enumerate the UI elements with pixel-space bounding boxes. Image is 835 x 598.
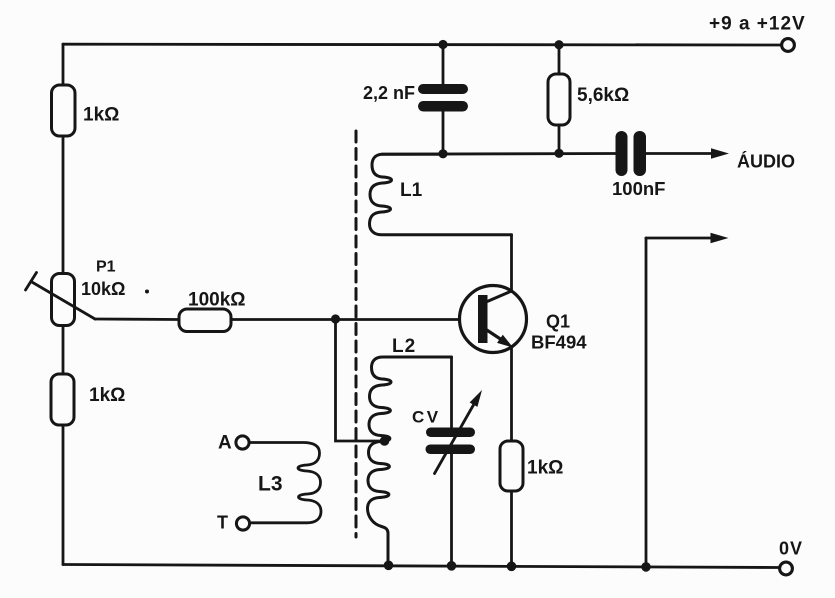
svg-text:5,6kΩ: 5,6kΩ xyxy=(577,85,629,106)
svg-text:10kΩ: 10kΩ xyxy=(81,279,125,299)
resistor R4 5,6kΩ xyxy=(548,74,570,125)
capacitor C2 100nF xyxy=(616,131,647,176)
stray ink mark xyxy=(145,290,149,294)
dashed shield line xyxy=(355,131,358,537)
node bottom rail / L2 xyxy=(384,561,394,571)
wire wiper to R3 xyxy=(95,318,179,321)
svg-text:A: A xyxy=(218,433,232,454)
capacitor CV variable xyxy=(426,390,483,474)
resistor R3 100kΩ xyxy=(179,309,231,332)
svg-text:+9 a +12V: +9 a +12V xyxy=(709,14,806,35)
wire audio line (L1 top to 100nF) xyxy=(382,152,616,155)
wire R2 to bottom rail xyxy=(62,425,65,565)
wire P1 to R2 xyxy=(62,326,65,375)
wire bottom ground rail xyxy=(63,565,779,568)
wire R5 to bottom rail xyxy=(510,491,513,566)
svg-text:Q1: Q1 xyxy=(546,312,570,332)
potentiometer P1 10kΩ xyxy=(26,273,96,326)
wire L2 top to CV xyxy=(450,357,453,428)
wire Q1 emitter to R5 xyxy=(510,347,513,441)
node bottom rail / second output xyxy=(641,562,651,572)
terminal 0V xyxy=(780,562,793,575)
node top rail / 2,2nF xyxy=(438,40,447,49)
inductor L3 xyxy=(250,443,322,523)
wire second output to bottom rail xyxy=(645,238,648,567)
svg-text:1kΩ: 1kΩ xyxy=(83,105,119,126)
wire top rail to R4 xyxy=(558,45,561,75)
wire 100nF to audio arrow xyxy=(646,152,712,155)
svg-text:L2: L2 xyxy=(392,336,416,357)
svg-text:P1: P1 xyxy=(96,259,116,276)
svg-text:CV: CV xyxy=(412,408,441,427)
wire L1 bottom to Q1 collector xyxy=(510,235,513,291)
svg-text:0V: 0V xyxy=(779,539,803,559)
svg-text:L1: L1 xyxy=(400,180,423,201)
node bottom rail / CV xyxy=(447,561,457,571)
node base junction xyxy=(331,314,340,323)
resistor R5 1kΩ emitter xyxy=(500,441,523,491)
resistor R2 1kΩ lower-left xyxy=(51,374,74,425)
inductor L1 xyxy=(370,154,512,235)
wire CV to bottom rail xyxy=(450,454,453,566)
terminal T xyxy=(236,517,249,530)
wire top rail to capacitor 2,2nF xyxy=(442,45,445,85)
wire R3 to Q1 base xyxy=(231,318,478,321)
node bottom rail / R5 xyxy=(507,562,517,572)
inductor L2 xyxy=(368,357,452,565)
transistor Q1 BF494 xyxy=(460,286,527,353)
svg-text:1kΩ: 1kΩ xyxy=(527,458,563,479)
node audio line / 2,2nF xyxy=(438,149,447,158)
wire 2,2nF to audio line xyxy=(442,112,445,154)
svg-text:L3: L3 xyxy=(258,473,283,496)
wire base junction to L2 tap xyxy=(336,319,385,441)
svg-text:100nF: 100nF xyxy=(612,178,665,199)
svg-text:100kΩ: 100kΩ xyxy=(188,290,246,311)
resistor R1 1kΩ top-left xyxy=(52,85,76,136)
svg-text:ÁUDIO: ÁUDIO xyxy=(737,151,795,172)
wire R4 to audio line xyxy=(558,125,561,153)
node L2 tap xyxy=(380,436,390,446)
wire R1 to P1 xyxy=(62,136,65,274)
svg-text:2,2 nF: 2,2 nF xyxy=(363,83,415,103)
node top rail / R4 xyxy=(554,40,563,49)
arrow second output xyxy=(646,237,712,240)
svg-text:1kΩ: 1kΩ xyxy=(89,385,125,406)
terminal A xyxy=(236,436,249,449)
svg-text:BF494: BF494 xyxy=(531,332,587,353)
svg-text:T: T xyxy=(217,513,228,533)
capacitor C1 2,2nF xyxy=(418,84,468,112)
terminal +9 a +12V xyxy=(782,39,795,52)
wire top supply rail xyxy=(63,43,781,47)
wire left vertical rail xyxy=(62,44,65,85)
node audio line / R4 xyxy=(554,149,563,158)
arrow audio output xyxy=(711,148,729,158)
